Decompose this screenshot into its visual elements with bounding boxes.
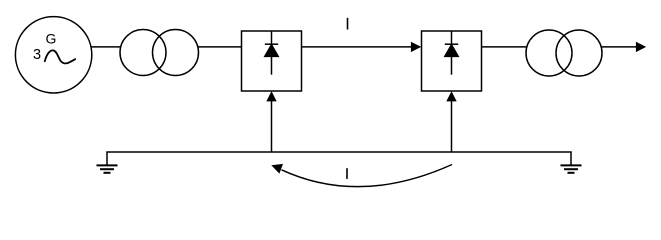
generator G1 (3-phase AC source) (15, 17, 91, 93)
valve D1 (thyristor symbol inside U1) (265, 31, 278, 75)
ground (left) (97, 165, 118, 172)
svg-text:G: G (46, 30, 57, 46)
wire generator to transformer T1 (91, 46, 121, 48)
converter U2 (inverter box) (422, 31, 482, 91)
ground (right) (561, 165, 582, 172)
valve D2 (thyristor symbol inside U2) (445, 31, 458, 75)
wire return path to converter U2 with arrow (446, 91, 456, 152)
converter U1 (rectifier box) (242, 31, 302, 91)
ground bus wire (107, 152, 571, 165)
transformer T1 (120, 30, 199, 76)
curved arrow ground return current (271, 164, 452, 187)
generator sine wave (45, 50, 75, 63)
transformer T2 (526, 30, 602, 76)
wire converter U2 to transformer T2 (482, 46, 528, 48)
svg-text:3: 3 (33, 47, 41, 63)
wire DC line U1 to U2 with arrow (302, 42, 422, 52)
label I (DC line current) (347, 18, 349, 30)
wire transformer T1 to converter U1 (198, 46, 242, 48)
wire output with arrow (601, 42, 646, 52)
label I (ground return current) (346, 168, 348, 179)
wire return path to converter U1 with arrow (266, 91, 276, 152)
